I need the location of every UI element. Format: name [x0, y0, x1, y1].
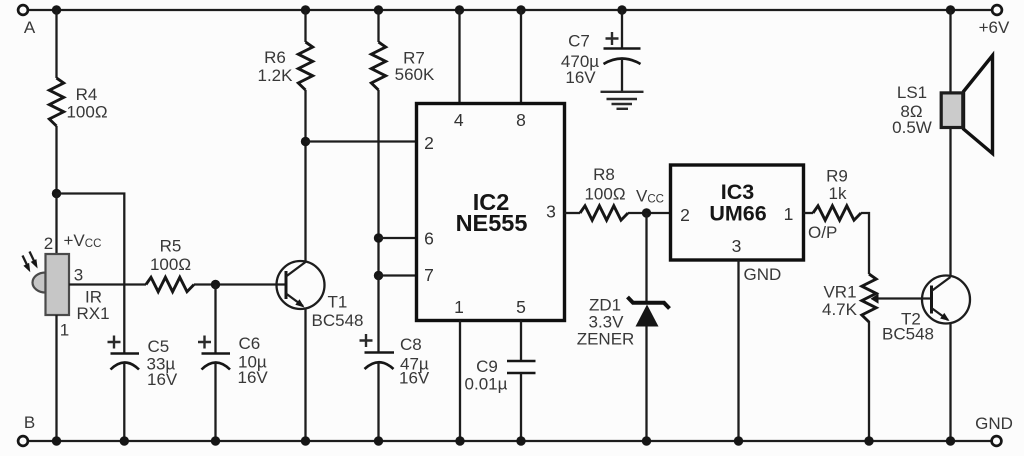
svg-text:IC3: IC3 — [721, 180, 755, 204]
wire T1 emitter to ground rail — [304, 309, 306, 442]
node top rail / R6 — [301, 5, 310, 14]
wire node to ZD1 — [645, 213, 647, 302]
wire top rail to R6 — [304, 10, 306, 42]
wire C7 to ground symbol — [621, 59, 623, 93]
wire pin7 node to C8 — [377, 276, 379, 353]
wire ZD1 to ground rail — [645, 327, 647, 442]
svg-text:6: 6 — [424, 229, 434, 249]
wire IC2 pin 5 to C9 — [520, 321, 522, 362]
wire T2 collector to speaker — [949, 129, 951, 277]
capacitor C6 10u 16V — [198, 334, 268, 387]
node C6 / ground rail — [211, 436, 220, 445]
wire IC2 pin 1 to ground rail — [459, 321, 461, 442]
svg-text:+6V: +6V — [979, 18, 1010, 37]
wire IC3 pin 1 to R9 — [804, 212, 814, 214]
terminal GND right — [975, 414, 1013, 446]
node R5 / C6 — [211, 280, 220, 289]
wire R7 down through pin6 node to pin7 node — [377, 90, 379, 276]
node C8 / ground rail — [374, 436, 383, 445]
node ZD1 / ground rail — [642, 436, 651, 445]
svg-text:C5: C5 — [148, 337, 170, 356]
node top rail / IC2 pin 4 — [455, 5, 464, 14]
svg-text:5: 5 — [516, 297, 526, 317]
svg-text:GND: GND — [975, 414, 1013, 433]
svg-text:R5: R5 — [160, 237, 182, 256]
svg-text:2: 2 — [44, 234, 53, 253]
svg-text:C6: C6 — [239, 334, 261, 353]
wire C9 to ground rail — [520, 373, 522, 441]
wire pin 7 stub — [379, 274, 417, 276]
op IC3 UM66 melody generator — [671, 165, 804, 260]
transistor T1 BC548 — [277, 261, 364, 330]
wire R6 to pin2 node — [304, 90, 306, 142]
svg-text:8: 8 — [516, 110, 526, 130]
wire top supply rail — [28, 9, 992, 11]
ground earth symbol — [601, 92, 644, 109]
wire T1 collector up to pin2 node — [304, 142, 306, 263]
capacitor C5 33u 16V — [108, 336, 178, 390]
IR ray arrow 2 — [30, 252, 38, 269]
node Vcc / R4 / RX1 pin2 — [52, 189, 61, 198]
svg-text:4: 4 — [454, 110, 464, 130]
svg-text:UM66: UM66 — [709, 202, 766, 226]
wire top rail to R4 — [55, 10, 57, 78]
svg-text:VCC: VCC — [636, 187, 664, 206]
svg-text:3: 3 — [546, 202, 556, 222]
potentiometer VR1 4.7K — [822, 274, 876, 322]
node Vcc / ZD1 — [642, 208, 651, 217]
svg-text:1k: 1k — [829, 184, 847, 203]
resistor R9 1k — [813, 167, 861, 221]
capacitor C8 47u 16V — [360, 334, 430, 388]
svg-text:1: 1 — [454, 297, 464, 317]
resistor R5 100ohm — [146, 237, 194, 292]
IR receiver RX1 — [33, 231, 110, 340]
svg-text:16V: 16V — [399, 369, 430, 388]
svg-text:4.7K: 4.7K — [822, 300, 858, 319]
wire pin 4 — [458, 10, 460, 103]
resistor R8 100ohm — [580, 165, 628, 220]
wire VR1 to ground rail — [868, 321, 870, 441]
speaker LS1 8ohm 0.5W — [892, 56, 992, 154]
svg-text:2: 2 — [680, 205, 690, 225]
resistor R4 100ohm — [49, 78, 107, 126]
svg-text:LS1: LS1 — [897, 83, 927, 102]
svg-text:1.2K: 1.2K — [258, 66, 294, 85]
node T1 emitter / ground rail — [301, 436, 310, 445]
svg-text:16V: 16V — [147, 370, 178, 389]
node VR1 / ground rail — [864, 436, 873, 445]
svg-text:B: B — [24, 413, 35, 432]
node top rail / IC2 pin 8 — [516, 5, 525, 14]
svg-text:0.5W: 0.5W — [892, 118, 932, 137]
wire RX1 pin 1 to ground rail — [55, 315, 57, 441]
svg-text:NE555: NE555 — [456, 210, 528, 236]
wire IC2 pin 3 to R8 — [565, 212, 581, 214]
wire top rail to R7 — [377, 10, 379, 42]
svg-text:C9: C9 — [476, 357, 498, 376]
IR ray arrow 1 — [23, 256, 31, 273]
node T2 emitter / ground rail — [946, 436, 955, 445]
svg-text:3: 3 — [74, 266, 83, 285]
svg-text:R4: R4 — [76, 85, 98, 104]
svg-text:1: 1 — [60, 321, 69, 340]
terminal +6V — [979, 5, 1010, 37]
node RX1 pin1 / ground rail — [52, 436, 61, 445]
svg-text:0.01µ: 0.01µ — [465, 375, 508, 394]
svg-text:RX1: RX1 — [76, 304, 109, 323]
node top rail / C7 — [617, 5, 626, 14]
node C9 / ground rail — [516, 436, 525, 445]
svg-text:C7: C7 — [568, 32, 590, 51]
svg-text:C8: C8 — [400, 335, 422, 354]
wire node to IC2 pin 2 — [306, 140, 417, 142]
resistor R6 1.2K — [258, 42, 313, 90]
wire C5 to ground rail — [123, 363, 125, 441]
zener diode ZD1 3.3V — [577, 296, 670, 349]
node C5 / ground rail — [120, 436, 129, 445]
wire bottom ground rail — [28, 440, 991, 442]
wire C6 to ground rail — [214, 363, 216, 441]
capacitor C9 0.01u — [465, 357, 536, 394]
node IC3 pin3 / ground rail — [734, 436, 743, 445]
node top rail / speaker — [946, 5, 955, 14]
svg-text:R8: R8 — [593, 165, 615, 184]
svg-text:100Ω: 100Ω — [584, 185, 625, 204]
resistor R7 560K — [371, 42, 435, 90]
wire node to RX1 pin 2 — [55, 194, 57, 255]
svg-text:2: 2 — [424, 133, 434, 153]
wire top rail to speaker — [949, 10, 951, 92]
wire node to C6 — [214, 285, 216, 354]
wire Vcc node to C5 — [57, 194, 125, 354]
svg-text:+VCC: +VCC — [64, 231, 102, 250]
svg-text:GND: GND — [744, 265, 782, 284]
svg-text:T1: T1 — [328, 293, 348, 312]
svg-text:A: A — [24, 18, 36, 37]
node IC2 pin1 / ground rail — [455, 436, 464, 445]
svg-text:100Ω: 100Ω — [66, 103, 107, 122]
wire IC3 pin 3 to ground rail — [737, 260, 739, 441]
wire T2 emitter to ground rail — [949, 323, 951, 442]
wire C8 to ground rail — [377, 363, 379, 442]
wire top rail to C7 — [621, 10, 623, 49]
wire R4 to Vcc node — [55, 126, 57, 194]
capacitor C7 470u 16V — [561, 32, 641, 88]
svg-text:100Ω: 100Ω — [150, 255, 191, 274]
svg-text:7: 7 — [424, 265, 434, 285]
node / IC2 pin 7 — [374, 271, 383, 280]
wire R9 corner down to VR1 — [861, 213, 869, 274]
svg-text:ZENER: ZENER — [577, 330, 635, 349]
svg-text:3: 3 — [732, 236, 742, 256]
terminal B — [18, 413, 35, 446]
node top rail / R4 — [52, 5, 61, 14]
svg-text:16V: 16V — [565, 68, 596, 87]
svg-text:R9: R9 — [826, 167, 848, 186]
terminal A — [18, 5, 36, 37]
svg-text:VR1: VR1 — [823, 283, 856, 302]
wire pin 6 stub — [379, 237, 417, 239]
node R7 / IC2 pin 6 — [374, 233, 383, 242]
wire R5 to T1 base — [194, 283, 286, 285]
transistor T2 BC548 — [882, 276, 970, 344]
wire R8 to IC3 pin 2 — [628, 212, 671, 214]
wire pin 8 — [520, 10, 522, 103]
node R6 / T1 collector / pin 2 — [301, 137, 310, 146]
wire RX1 pin 3 to R5 — [69, 283, 146, 285]
svg-text:O/P: O/P — [808, 223, 837, 242]
node top rail / R7 — [374, 5, 383, 14]
svg-text:R6: R6 — [264, 48, 286, 67]
wire VR1 wiper to T2 base — [871, 294, 932, 304]
op IC2 NE555 timer — [417, 104, 565, 321]
svg-text:BC548: BC548 — [882, 325, 934, 344]
svg-text:560K: 560K — [395, 65, 435, 84]
svg-text:BC548: BC548 — [312, 311, 364, 330]
svg-text:1: 1 — [784, 204, 794, 224]
svg-text:16V: 16V — [238, 368, 269, 387]
